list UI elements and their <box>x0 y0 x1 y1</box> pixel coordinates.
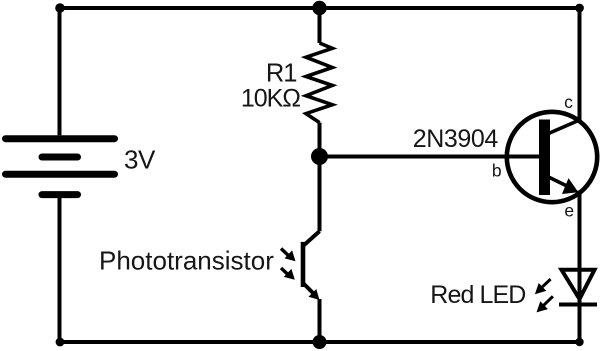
svg-text:b: b <box>492 160 502 180</box>
svg-text:R1: R1 <box>266 59 297 87</box>
svg-text:e: e <box>564 200 574 220</box>
svg-text:Phototransistor: Phototransistor <box>99 246 274 276</box>
svg-text:10KΩ: 10KΩ <box>241 84 300 112</box>
svg-text:3V: 3V <box>124 145 156 175</box>
svg-text:c: c <box>564 92 573 112</box>
svg-text:2N3904: 2N3904 <box>413 125 499 153</box>
svg-text:Red LED: Red LED <box>430 281 525 309</box>
